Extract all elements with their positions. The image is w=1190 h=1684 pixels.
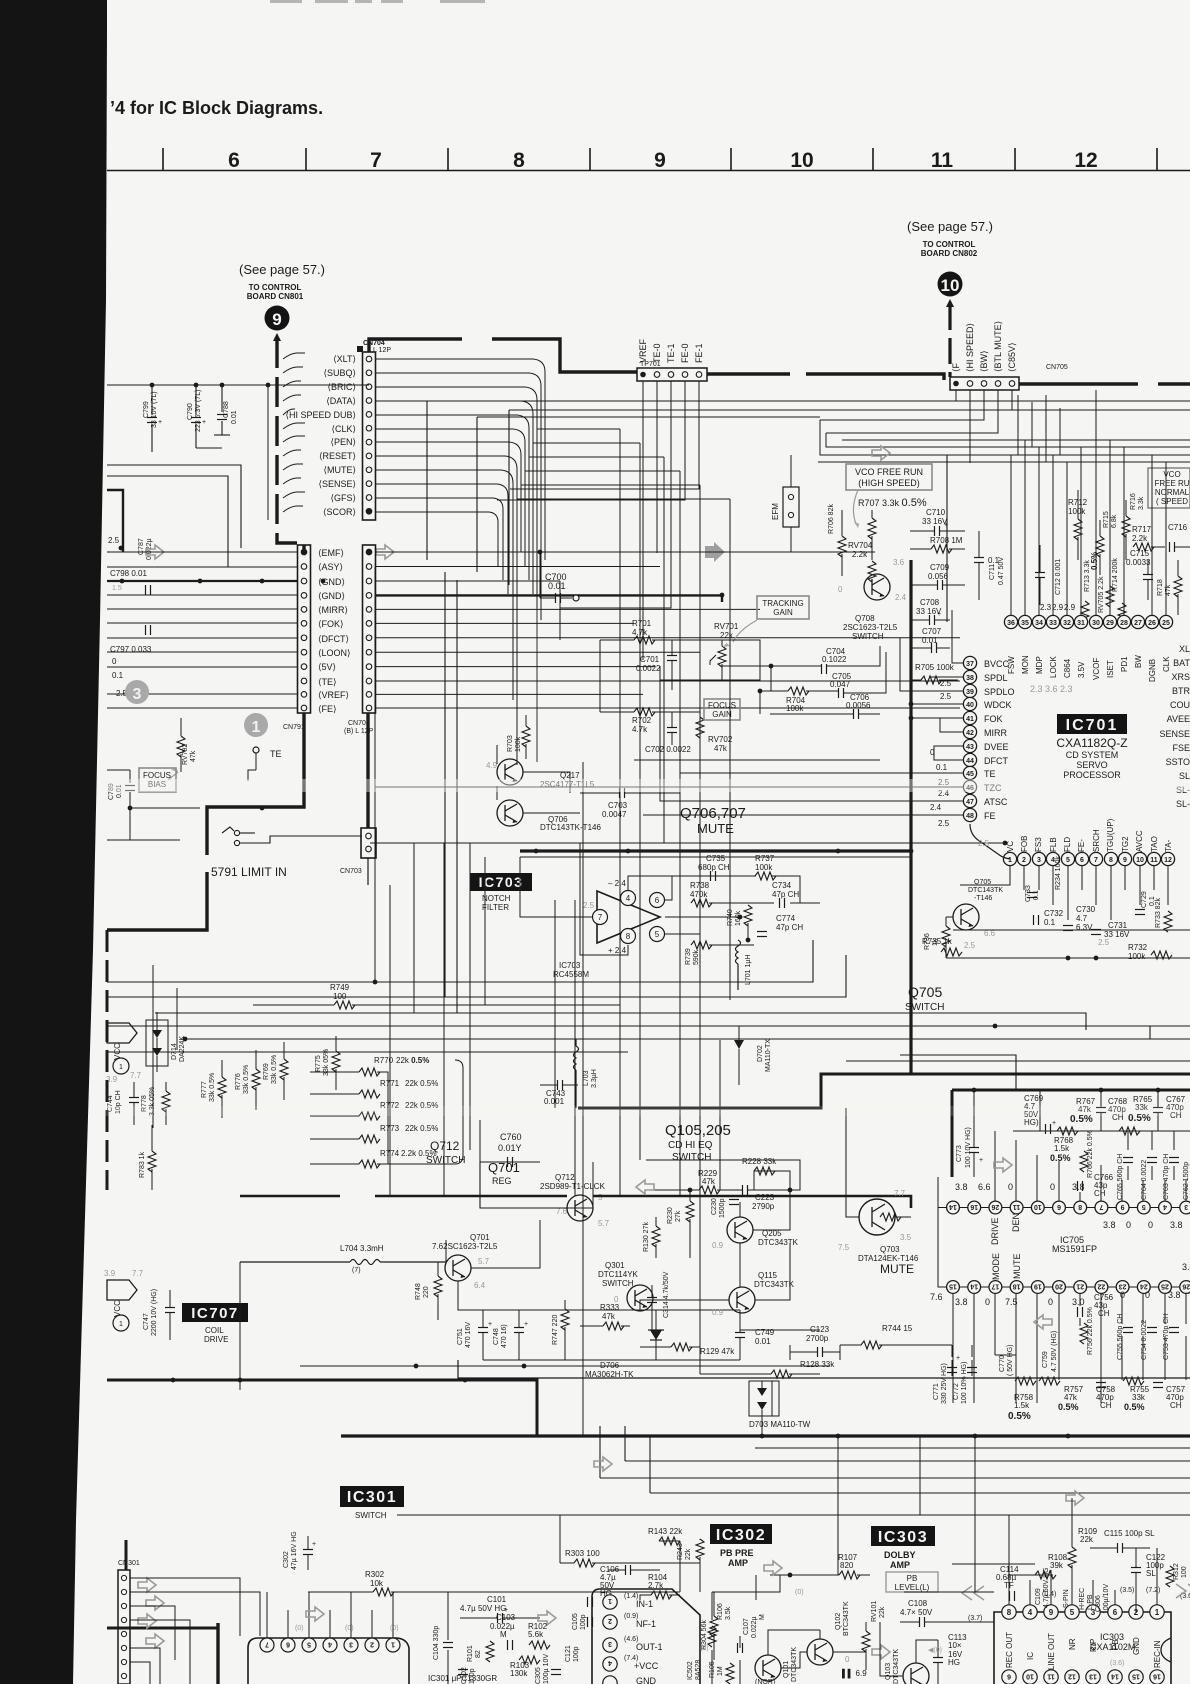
svg-text:DA224K: DA224K (179, 1036, 186, 1062)
svg-text:C733: C733 (1025, 885, 1032, 902)
svg-text:+: + (524, 1321, 528, 1328)
svg-text:6.8k: 6.8k (1111, 514, 1118, 528)
svg-text:R718: R718 (1157, 579, 1164, 596)
svg-text:Q703: Q703 (880, 1245, 900, 1254)
svg-text:4.7µ 50V HG: 4.7µ 50V HG (460, 1604, 506, 1613)
IC703 label (470, 873, 532, 891)
svg-text:DOLBY: DOLBY (884, 1550, 916, 1560)
svg-text:C747: C747 (143, 1313, 150, 1330)
svg-text:+: + (956, 1355, 960, 1362)
IC705 rotated pin names row B (991, 1253, 1022, 1280)
svg-text:R756 22k 0.5%: R756 22k 0.5% (1087, 1307, 1094, 1355)
thick wires Q712 switch path (375, 1195, 567, 1198)
svg-text:IC302: IC302 (716, 1527, 766, 1544)
transistor Q701 (432, 1233, 498, 1290)
svg-text:⟨HI SPEED⟩: ⟨HI SPEED⟩ (965, 323, 975, 372)
wire thick CN703 up (366, 713, 369, 828)
svg-text:D703 MA110-TW: D703 MA110-TW (749, 1420, 811, 1429)
capacitor C798 (110, 569, 151, 595)
svg-text:C772: C772 (953, 1383, 960, 1400)
resistor R715 (1096, 511, 1118, 575)
capacitor C760 (480, 1132, 540, 1167)
label box VCO FREE RUN HIGH SPEED (846, 464, 932, 529)
capacitor C744 (107, 1082, 139, 1125)
svg-text:6: 6 (228, 149, 240, 172)
svg-text:REC OUT: REC OUT (1005, 1632, 1014, 1668)
svg-text:0.01: 0.01 (755, 1337, 771, 1346)
svg-text:SWITCH: SWITCH (672, 1152, 711, 1163)
svg-text:22k: 22k (685, 1548, 692, 1560)
svg-text:⟨FE⟩: ⟨FE⟩ (318, 704, 337, 714)
capacitor C123 (790, 1325, 840, 1360)
svg-text:8: 8 (626, 932, 631, 941)
capacitor C767 (1153, 1090, 1186, 1131)
svg-text:IC303: IC303 (878, 1529, 928, 1546)
capacitor C716 (1168, 523, 1190, 552)
svg-text:TO CONTROL: TO CONTROL (923, 240, 976, 249)
svg-text:4.7: 4.7 (1076, 914, 1088, 923)
svg-text:MIRR: MIRR (984, 728, 1007, 738)
svg-text:4.9: 4.9 (486, 761, 498, 770)
svg-text:3.9: 3.9 (104, 1269, 116, 1278)
svg-text:100k: 100k (755, 863, 773, 872)
transistor Q103 (885, 1649, 929, 1684)
svg-text:7.7: 7.7 (130, 1071, 142, 1080)
svg-text:C702 0.0022: C702 0.0022 (645, 745, 691, 754)
long thin bus lines bottom (397, 1426, 1190, 1515)
R303 C106 cluster (565, 1549, 660, 1598)
svg-text:40: 40 (966, 702, 974, 709)
svg-text:100p: 100p (573, 1646, 580, 1662)
wires C704 network (722, 646, 886, 714)
svg-text:2790p: 2790p (752, 1202, 775, 1211)
svg-text:R312: R312 (1173, 1563, 1180, 1580)
svg-text:⟨HI SPEED DUB⟩: ⟨HI SPEED DUB⟩ (285, 410, 356, 420)
resistor R749 (253, 983, 620, 1009)
svg-text:470 16V: 470 16V (465, 1322, 472, 1348)
svg-text:CH: CH (1100, 1401, 1112, 1410)
svg-text:(0): (0) (295, 1625, 304, 1632)
svg-text:▌▌ 6.9: ▌▌ 6.9 (842, 1668, 867, 1679)
svg-text:470k: 470k (690, 890, 708, 899)
svg-text:0: 0 (845, 1655, 850, 1664)
resistor R702 (600, 708, 700, 734)
svg-text:(3.5): (3.5) (1120, 1587, 1134, 1594)
resistor R747 vertical mid (552, 1300, 569, 1360)
test point TE (253, 747, 259, 753)
node 1 circled gray (244, 713, 268, 737)
svg-text:BOARD CN802: BOARD CN802 (921, 249, 978, 258)
svg-text:(1.4): (1.4) (624, 1593, 638, 1600)
svg-text:3.8: 3.8 (1182, 1262, 1190, 1272)
svg-text:R705 100k: R705 100k (915, 663, 955, 672)
svg-text:39k: 39k (1050, 1561, 1064, 1570)
ruler numbers (228, 149, 1098, 172)
svg-text:0.1: 0.1 (1044, 918, 1056, 927)
svg-text:12: 12 (1074, 149, 1097, 172)
svg-text:0: 0 (1145, 1290, 1150, 1300)
svg-text:2SC1623-T2L5: 2SC1623-T2L5 (843, 623, 898, 632)
svg-text:FS3: FS3 (1034, 837, 1043, 852)
svg-text:R129 47k: R129 47k (700, 1347, 735, 1356)
svg-text:SWITCH: SWITCH (602, 1279, 634, 1288)
svg-text:Q701: Q701 (470, 1233, 490, 1242)
thick bus y1380 left (107, 1380, 537, 1437)
svg-text:⟨LOON⟩: ⟨LOON⟩ (318, 648, 351, 658)
capacitor C703 (580, 788, 660, 819)
wire thick CN791 bottom L-path (207, 713, 304, 855)
svg-text:Q712: Q712 (430, 1139, 460, 1153)
wires IC301 pins up (267, 1592, 393, 1638)
svg-text:⟨ASY⟩: ⟨ASY⟩ (318, 562, 343, 572)
svg-text:Q105,205: Q105,205 (665, 1122, 731, 1139)
svg-text:C755 560p CH: C755 560p CH (1117, 1314, 1124, 1360)
svg-text:13: 13 (1089, 1673, 1097, 1680)
svg-text:( SPEED: ( SPEED (1156, 497, 1188, 506)
transistor Q205 (712, 1217, 799, 1250)
svg-text:5791 LIMIT IN: 5791 LIMIT IN (211, 865, 287, 879)
potentiometer RV705 (1098, 576, 1114, 613)
svg-text:130k: 130k (510, 1669, 528, 1678)
svg-text:33k: 33k (1132, 1393, 1146, 1402)
svg-text:C109: C109 (1035, 1588, 1042, 1605)
svg-text:+: + (937, 611, 941, 618)
resistor R748 (415, 1262, 442, 1320)
svg-text:3.8: 3.8 (1072, 1182, 1085, 1192)
svg-text:C710: C710 (926, 508, 946, 517)
svg-text:48: 48 (966, 813, 974, 820)
svg-text:R735 1k: R735 1k (922, 937, 953, 946)
svg-text:Q708: Q708 (855, 614, 875, 623)
gray hollow arrows IC705 (994, 1158, 1012, 1172)
svg-text:(See page 57.): (See page 57.) (239, 262, 325, 277)
inductor L704 (240, 1244, 445, 1274)
transistor Q706b (497, 800, 601, 832)
svg-text:+: + (1052, 1120, 1056, 1127)
svg-text:C708: C708 (920, 598, 940, 607)
transistor Q703 (838, 1189, 919, 1276)
svg-text:C104 330p: C104 330p (433, 1626, 440, 1660)
svg-text:Q102: Q102 (835, 1613, 842, 1630)
wire verticals CN705 to VCO area (1018, 390, 1096, 462)
svg-text:C306: C306 (1095, 1595, 1102, 1612)
resistor R718 (1157, 560, 1182, 615)
svg-text:47k: 47k (702, 1177, 716, 1186)
svg-text:SERVO: SERVO (1076, 760, 1107, 770)
label box FOCUS GAIN (704, 699, 740, 720)
vertical drops row B to bottom bus (952, 1294, 1186, 1403)
svg-text:MON: MON (1021, 655, 1030, 674)
svg-text:10×: 10× (948, 1641, 962, 1650)
long bus wires upper (427, 401, 1190, 622)
svg-text:7: 7 (1094, 857, 1098, 864)
gray hollow arrow top bus (872, 446, 890, 460)
svg-text:45: 45 (966, 771, 974, 778)
svg-text:⟨SENSE⟩: ⟨SENSE⟩ (318, 479, 356, 489)
resistor R767 (1057, 1097, 1096, 1135)
svg-text:11: 11 (1150, 857, 1158, 864)
svg-text:3: 3 (349, 1641, 353, 1648)
wires mid cluster (497, 581, 880, 813)
potentiometer RV101 (862, 1601, 886, 1660)
svg-text:6: 6 (655, 896, 660, 905)
wires into CN791 from left (107, 552, 297, 708)
transistor Q712 (540, 1173, 610, 1228)
svg-text:9: 9 (1121, 1203, 1125, 1210)
svg-text:R708 1M: R708 1M (930, 536, 963, 545)
R143 R243 R104 cluster (648, 1527, 718, 1650)
svg-text:TE: TE (270, 749, 282, 759)
svg-text:L704 3.3mH: L704 3.3mH (340, 1244, 384, 1253)
svg-text:39: 39 (966, 689, 974, 696)
node 9 circled (265, 306, 290, 331)
svg-text:⟨DATA⟩: ⟨DATA⟩ (326, 396, 356, 406)
connector CN704 (357, 340, 391, 520)
svg-text:CN705: CN705 (1046, 364, 1068, 371)
capacitor C768 (1096, 1090, 1128, 1131)
svg-text:RV701: RV701 (714, 622, 739, 631)
svg-text:C764 0.0022: C764 0.0022 (1141, 1160, 1148, 1200)
svg-text:(NOR): (NOR) (755, 1679, 775, 1684)
svg-text:C711: C711 (989, 564, 996, 580)
wire y1366 (300, 1365, 830, 1367)
svg-text:10: 10 (790, 149, 813, 172)
svg-text:6: 6 (1007, 1673, 1011, 1680)
svg-text:FREE RU: FREE RU (1154, 479, 1189, 488)
svg-text:SL-: SL- (1176, 799, 1190, 809)
svg-text:⟨C85V⟩: ⟨C85V⟩ (1007, 342, 1017, 372)
svg-text:FOB: FOB (1020, 836, 1029, 852)
svg-text:8: 8 (1007, 1608, 1012, 1617)
svg-text:5: 5 (655, 930, 660, 939)
R101 C103 R102 R103 C102 C305 cluster (458, 1613, 561, 1684)
svg-text:+: + (312, 1541, 316, 1548)
svg-text:C707: C707 (922, 627, 942, 636)
svg-text:9: 9 (654, 149, 666, 172)
svg-text:11: 11 (931, 149, 954, 172)
svg-text:SSTO: SSTO (1166, 757, 1190, 767)
svg-text:7.6: 7.6 (930, 1292, 943, 1302)
svg-text:100k: 100k (515, 736, 522, 752)
svg-text:PB: PB (907, 1574, 918, 1583)
svg-text:OUT-1: OUT-1 (636, 1642, 663, 1652)
capacitor C104 (433, 1592, 453, 1684)
wires IC303 pins up to bus (712, 1416, 1157, 1670)
svg-text:DRIVE: DRIVE (990, 1217, 1000, 1245)
svg-text:DTC343TK: DTC343TK (758, 1238, 799, 1247)
IC701 top pin verticals to bus (818, 420, 1190, 615)
svg-text:0.5%: 0.5% (1008, 1411, 1031, 1422)
svg-text:100k: 100k (1128, 952, 1146, 961)
svg-text:CXA1102M: CXA1102M (1090, 1642, 1135, 1652)
svg-text:0: 0 (985, 1297, 990, 1307)
svg-text:2700p: 2700p (806, 1334, 829, 1343)
svg-text:R716: R716 (1130, 493, 1137, 510)
svg-text:47k: 47k (602, 1312, 616, 1321)
svg-text:C751: C751 (457, 1328, 464, 1345)
svg-text:3.8: 3.8 (1103, 1220, 1116, 1230)
svg-text:0.9: 0.9 (712, 1241, 724, 1250)
connector CN791 (283, 545, 311, 731)
TP701 signal labels rotated (638, 338, 704, 363)
svg-text:R769: R769 (263, 1063, 270, 1080)
svg-text:– 2.4: – 2.4 (608, 879, 626, 888)
svg-text:HG): HG) (1024, 1118, 1039, 1127)
svg-text:TG2: TG2 (1121, 836, 1130, 852)
connector CN703 (340, 828, 376, 875)
svg-text:20: 20 (1055, 1283, 1063, 1290)
svg-text:⟨GND⟩: ⟨GND⟩ (318, 577, 345, 587)
svg-text:FE-: FE- (1077, 839, 1086, 852)
svg-text:⟨DFCT⟩: ⟨DFCT⟩ (318, 634, 349, 644)
black scan band left edge (0, 0, 107, 1684)
svg-text:TA-: TA- (1164, 839, 1173, 852)
wires TP701 pins drop to left bus (497, 381, 699, 660)
capacitor C707 (910, 627, 950, 653)
svg-text:MODE: MODE (991, 1253, 1001, 1280)
svg-text:COIL: COIL (205, 1326, 224, 1335)
svg-text:8A528: 8A528 (695, 1660, 702, 1680)
svg-text:+: + (488, 1321, 492, 1328)
svg-text:680p CH: 680p CH (698, 863, 730, 872)
svg-text:9: 9 (272, 310, 281, 329)
svg-text:BOARD CN801: BOARD CN801 (247, 292, 304, 301)
inductor L701 (736, 940, 753, 990)
svg-text:MUTE: MUTE (1012, 1254, 1022, 1280)
svg-text:1.5: 1.5 (112, 585, 122, 592)
svg-text:CH: CH (1094, 1189, 1106, 1198)
resistor R706 (828, 504, 846, 576)
svg-text:220: 220 (423, 1286, 430, 1298)
CN701 pins (366, 549, 372, 711)
svg-text:⟨MUTE⟩: ⟨MUTE⟩ (323, 465, 356, 475)
svg-text:16: 16 (970, 1203, 978, 1210)
svg-text:C729: C729 (1141, 891, 1148, 908)
svg-text:C223: C223 (755, 1193, 775, 1202)
svg-text:NOTCH: NOTCH (482, 894, 511, 903)
svg-text:FSE: FSE (1172, 743, 1190, 753)
svg-text:Q705: Q705 (974, 879, 991, 886)
svg-text:1M: 1M (717, 1666, 724, 1676)
IC701 top pin names rotated (1007, 655, 1171, 682)
svg-text:CH: CH (1098, 1309, 1110, 1318)
svg-text:3.5: 3.5 (900, 1233, 912, 1242)
svg-text:4: 4 (328, 1641, 332, 1648)
resistor R707 symbol (868, 510, 876, 560)
svg-text:22k 0.5%: 22k 0.5% (396, 1056, 429, 1065)
svg-text:C763 470p CH: C763 470p CH (1163, 1154, 1170, 1200)
svg-text:C797 0.033: C797 0.033 (110, 645, 152, 654)
svg-text:⟨TE⟩: ⟨TE⟩ (318, 677, 337, 687)
wires above row A (995, 1090, 1190, 1201)
svg-text:10: 10 (1136, 857, 1144, 864)
svg-text:CN791: CN791 (283, 724, 305, 731)
svg-text:26: 26 (991, 1203, 999, 1210)
svg-text:3: 3 (1037, 857, 1041, 864)
svg-text:NORMAL: NORMAL (1155, 488, 1190, 497)
capacitors C751 C748 (457, 1310, 528, 1360)
svg-text:C715: C715 (1130, 549, 1150, 558)
label box PB LEVEL(L) (886, 1572, 938, 1592)
svg-text:4.7 50V (HG): 4.7 50V (HG) (1051, 1331, 1058, 1372)
svg-text:BTR: BTR (1172, 686, 1190, 696)
svg-text:0.056: 0.056 (928, 572, 949, 581)
svg-text:IN-1: IN-1 (636, 1599, 653, 1609)
svg-text:VCOF: VCOF (1092, 658, 1101, 680)
svg-text:DEN: DEN (1011, 1213, 1021, 1232)
capacitor C302 (283, 1531, 316, 1570)
capacitor C797 (110, 625, 152, 654)
svg-text:Q115: Q115 (758, 1271, 778, 1280)
svg-text:M: M (500, 1630, 507, 1639)
svg-text:1.5k: 1.5k (1054, 1144, 1070, 1153)
CN704 pins (366, 356, 372, 514)
capacitor C799 (143, 385, 162, 448)
svg-text:2.5: 2.5 (940, 679, 952, 688)
gray annotation numbers VCO area (988, 556, 1076, 612)
svg-text:33k 0.5%: 33k 0.5% (209, 1073, 216, 1102)
IC705 row B pin links (938, 1177, 1180, 1287)
svg-text:DTC143TK-T146: DTC143TK-T146 (540, 823, 601, 832)
svg-text:34: 34 (1035, 620, 1043, 627)
svg-text:IC707: IC707 (191, 1305, 239, 1322)
svg-text:⟨SUBQ⟩: ⟨SUBQ⟩ (323, 368, 356, 378)
svg-text:-T146: -T146 (974, 895, 992, 902)
svg-text:4.7× 50V: 4.7× 50V (900, 1608, 933, 1617)
svg-text:2200 10V (HG): 2200 10V (HG) (151, 1289, 158, 1336)
label box TRACKING GAIN (722, 596, 809, 649)
svg-text:LEVEL(L): LEVEL(L) (895, 1583, 930, 1592)
svg-text:35: 35 (1021, 620, 1029, 627)
label box FOCUS BIAS (139, 768, 176, 792)
svg-text:(See page 57.): (See page 57.) (907, 219, 993, 234)
svg-text:37: 37 (966, 661, 974, 668)
resistor R717 (1132, 525, 1165, 551)
capacitor C701 (636, 640, 677, 690)
svg-text:PB PRE: PB PRE (720, 1548, 754, 1558)
svg-text:XRS: XRS (1171, 672, 1190, 682)
svg-text:Q101: Q101 (783, 1661, 790, 1678)
svg-text:GAIN: GAIN (773, 608, 793, 617)
svg-text:R749: R749 (330, 983, 350, 992)
svg-text:5: 5 (1070, 1608, 1075, 1617)
svg-text:R715: R715 (1103, 511, 1110, 528)
svg-text:7.7: 7.7 (894, 1189, 906, 1198)
ruler ticks (163, 148, 1157, 170)
svg-text:R747 220: R747 220 (552, 1315, 559, 1345)
svg-text:(0.4): (0.4) (1042, 1591, 1056, 1598)
svg-text:IC703: IC703 (559, 961, 581, 970)
diode D714 (146, 1012, 186, 1072)
svg-text:2.5: 2.5 (583, 901, 595, 910)
capacitor C704 (822, 647, 848, 674)
svg-text:2.4: 2.4 (930, 803, 942, 812)
svg-text:R701: R701 (632, 619, 652, 628)
svg-text:18: 18 (1013, 1283, 1021, 1290)
svg-text:CD SYSTEM: CD SYSTEM (1066, 750, 1119, 760)
svg-text:4.7µ 50V HG: 4.7µ 50V HG (1043, 1567, 1050, 1608)
svg-text:26: 26 (1148, 620, 1156, 627)
capacitor C743 (540, 1080, 578, 1106)
svg-text:+: + (158, 419, 162, 426)
svg-text:D702: D702 (757, 1045, 764, 1062)
svg-text:0.0047: 0.0047 (602, 810, 627, 819)
svg-text:FLD: FLD (1063, 837, 1072, 852)
resistor R701 (600, 619, 700, 644)
connector CN701 (344, 545, 376, 735)
svg-text:43: 43 (966, 744, 974, 751)
svg-text:R302: R302 (365, 1570, 385, 1579)
